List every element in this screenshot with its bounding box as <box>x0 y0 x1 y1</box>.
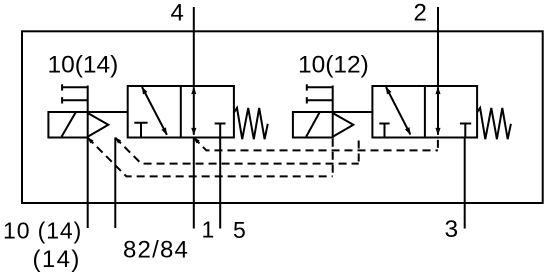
pilot P1 triangle <box>88 113 109 137</box>
solenoid coil S1 box <box>48 112 87 138</box>
port line 4 <box>193 7 195 86</box>
port line 10(14) drop <box>87 138 89 229</box>
svg-text:10(12): 10(12) <box>298 52 369 79</box>
valve V1 crossed-flow arrow <box>142 87 167 135</box>
svg-text:10(14): 10(14) <box>48 51 119 78</box>
solenoid coil S1 diagonal <box>62 113 76 137</box>
pilot P1 stem line <box>87 86 89 113</box>
svg-text:4: 4 <box>171 0 184 27</box>
svg-text:3: 3 <box>445 216 459 243</box>
valve V1 body <box>128 86 234 138</box>
port line 2 <box>437 7 439 86</box>
valve V1 divider <box>180 86 182 138</box>
pilot P1 top line <box>88 111 128 113</box>
valve V1 blocked port T right square <box>215 124 226 137</box>
valve V1 vertical flow arrow <box>193 87 195 135</box>
pilot P2 stem line <box>332 86 334 113</box>
valve V2 blocked port T right square <box>460 124 471 137</box>
port line 1 drop <box>193 138 195 229</box>
port line 5 drop <box>219 138 221 229</box>
pilot P2 top line <box>333 111 373 113</box>
port line 82/84 drop <box>114 138 116 229</box>
solenoid coil S2 box <box>293 112 333 138</box>
valve V2 crossed-flow arrow <box>386 87 410 135</box>
valve V1 return spring <box>234 108 268 139</box>
svg-text:2: 2 <box>414 0 427 27</box>
pilot channel 12 dashed <box>194 138 438 151</box>
svg-text:1: 1 <box>202 217 215 243</box>
pilot channel 14 dashed <box>88 138 333 177</box>
enclosure border <box>22 31 543 203</box>
svg-text:82/84: 82/84 <box>123 236 189 263</box>
svg-text:(14): (14) <box>33 246 81 272</box>
pilot channel 84 dashed <box>115 138 358 164</box>
electrical connection E1 <box>62 84 88 103</box>
solenoid coil S2 diagonal <box>306 113 319 137</box>
valve V2 vertical flow arrow <box>437 87 439 135</box>
pilot P2 triangle <box>333 113 354 137</box>
electrical connection E2 <box>307 84 333 103</box>
valve V2 body <box>372 86 477 138</box>
port line 3 drop <box>464 138 466 229</box>
valve V1 blocked port T left square <box>134 123 147 137</box>
valve V2 blocked port T left square <box>379 124 389 137</box>
svg-text:5: 5 <box>233 217 246 243</box>
valve V2 divider <box>424 86 426 138</box>
svg-text:10 (14): 10 (14) <box>3 218 82 244</box>
valve V2 return spring <box>477 108 511 139</box>
